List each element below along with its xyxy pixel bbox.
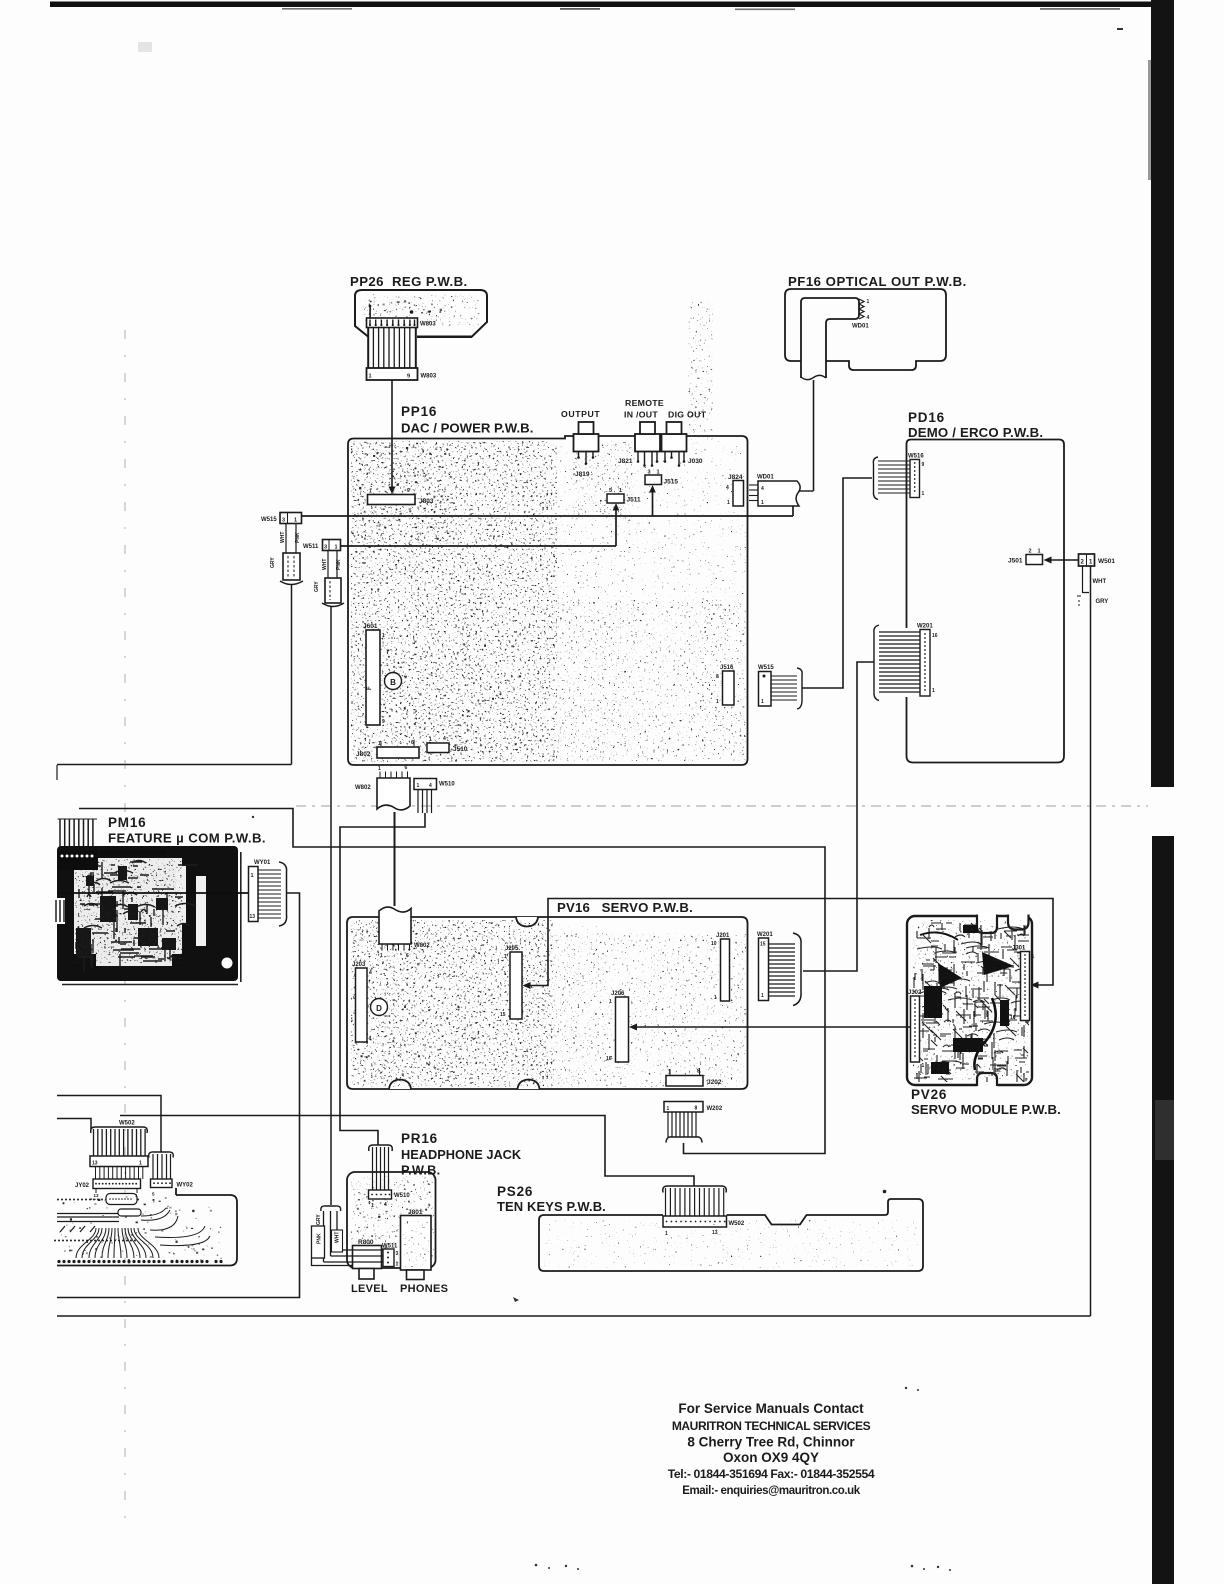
svg-text:J516: J516: [720, 665, 734, 671]
svg-text:1: 1: [619, 488, 622, 494]
WD01 zigzag pins on PF16: [852, 299, 870, 330]
connector W802 lower (PV16 side): [379, 907, 430, 959]
PR16 HEADPHONE JACK label: [401, 1131, 522, 1178]
ribbon W515 (board side, to PD16 W516): [758, 665, 802, 709]
connector J601: [363, 623, 385, 725]
connector J516: [716, 665, 734, 705]
svg-text:PV16 SERVO P.W.B.: PV16 SERVO P.W.B.: [557, 900, 693, 915]
W515 GRY wire down and across to x57: [57, 584, 292, 765]
svg-text:LEVEL: LEVEL: [351, 1283, 388, 1295]
svg-text:DAC / POWER P.W.B.: DAC / POWER P.W.B.: [401, 421, 533, 436]
PM16 FEATURE uCOM P.W.B. label: [108, 815, 266, 846]
svg-text:1: 1: [369, 489, 372, 495]
svg-text:R800: R800: [358, 1239, 374, 1246]
ribbon cable W803: [368, 327, 416, 368]
svg-text:Email:- enquiries@mauritron.co: Email:- enquiries@mauritron.co.uk: [682, 1485, 861, 1497]
PF16 OPTICAL OUT P.W.B. label: [788, 274, 967, 289]
W511 GRY wire long run down to PR16: [330, 606, 332, 1205]
connector W502 (display side) ribbon: [90, 1121, 148, 1180]
connector J501: [1008, 549, 1043, 565]
svg-text:6: 6: [406, 953, 409, 959]
wire PD16 W201 to PV16 W201: [803, 662, 874, 971]
svg-text:16: 16: [606, 1056, 612, 1062]
svg-text:J515: J515: [664, 479, 679, 486]
wire J206 to J302 (PV26) with arrow: [629, 1024, 911, 1031]
svg-text:1: 1: [251, 873, 254, 879]
W510 ribbon into PR16: [369, 1145, 411, 1209]
svg-text:PV26: PV26: [911, 1087, 947, 1102]
svg-text:1: 1: [609, 999, 612, 1005]
wire W515 ribbon to PD16 W516: [802, 478, 872, 688]
wire WY01 to bottom-left rail: [57, 893, 300, 1298]
svg-text:GRY: GRY: [314, 581, 320, 592]
connector W511 (PR16 side): [382, 1244, 399, 1268]
PV26 top/bottom edge notches: [977, 913, 1029, 1088]
svg-text:J821: J821: [618, 458, 633, 465]
svg-text:1: 1: [382, 633, 385, 639]
svg-text:W515: W515: [261, 517, 277, 523]
svg-text:1: 1: [657, 470, 660, 476]
wires crossing R800 into W511: [352, 1250, 383, 1262]
svg-text:J801: J801: [408, 1209, 423, 1216]
svg-text:16: 16: [932, 633, 938, 639]
W501 WHT wire stub: [1077, 566, 1106, 607]
svg-text:W202: W202: [707, 1106, 723, 1112]
connector J510: [427, 736, 468, 753]
svg-text:3: 3: [282, 518, 285, 524]
svg-text:GRY: GRY: [270, 557, 276, 568]
svg-text:J601: J601: [363, 623, 378, 630]
svg-text:J203: J203: [352, 962, 366, 968]
connector W803 upper (board side): [367, 305, 437, 328]
svg-text:1: 1: [369, 1036, 372, 1042]
svg-text:4: 4: [761, 486, 764, 492]
svg-text:OUTPUT: OUTPUT: [561, 409, 600, 419]
J801 PHONES jack: [401, 1209, 432, 1280]
svg-text:PS26: PS26: [497, 1184, 533, 1199]
PD16 DEMO/ERCO P.W.B. label: [908, 410, 1043, 440]
svg-text:PP26 REG P.W.B.: PP26 REG P.W.B.: [350, 274, 468, 289]
connector W511 (cable plug): [303, 540, 341, 551]
svg-text:1: 1: [761, 699, 764, 705]
svg-text:1: 1: [378, 766, 381, 772]
svg-text:1: 1: [294, 518, 297, 524]
svg-text:J206: J206: [611, 991, 625, 997]
connector W515 (cable plug): [261, 513, 302, 524]
svg-text:FEATURE µ COM P.W.B.: FEATURE µ COM P.W.B.: [108, 831, 266, 846]
PF16 inner cutout channel with WD01 pins: [801, 298, 859, 380]
svg-text:MAURITRON TECHNICAL SERVICES: MAURITRON TECHNICAL SERVICES: [672, 1419, 871, 1433]
right border bar upper segment: [1148, 0, 1174, 787]
svg-text:8: 8: [716, 674, 719, 680]
svg-text:J302: J302: [908, 990, 922, 996]
svg-text:W510: W510: [394, 1193, 410, 1199]
svg-text:F: F: [367, 686, 373, 690]
svg-text:1: 1: [932, 688, 935, 694]
connector W502 (PS26 side) with ribbon: [663, 1186, 745, 1237]
svg-text:10: 10: [711, 941, 717, 947]
wire PF16 channel down to WD01 connector: [799, 380, 814, 491]
wire W515 bus to WD01 with tap arrow into J515: [292, 485, 793, 516]
svg-text:D: D: [376, 1004, 382, 1013]
stray scan marks: [138, 28, 1123, 1571]
svg-text:WD01: WD01: [852, 324, 869, 330]
svg-text:9: 9: [407, 374, 410, 380]
PV26 board outline: [907, 916, 1032, 1085]
svg-text:GRY: GRY: [316, 1214, 322, 1225]
PP26 REG board outline: [355, 290, 487, 337]
svg-text:JY02: JY02: [75, 1183, 90, 1189]
svg-text:J510: J510: [453, 746, 468, 753]
svg-text:W802: W802: [355, 785, 371, 791]
svg-text:J205: J205: [505, 946, 519, 952]
svg-text:J202: J202: [707, 1079, 722, 1086]
connector JY02: [75, 1179, 141, 1198]
LEVEL / PHONES labels: [351, 1283, 448, 1295]
svg-text:5: 5: [609, 488, 612, 494]
svg-text:J301: J301: [1012, 946, 1026, 952]
svg-text:PD16: PD16: [908, 410, 945, 425]
connector J205: [500, 946, 522, 1019]
svg-text:1: 1: [761, 993, 764, 999]
Mauritron service contact text block: [668, 1401, 875, 1497]
svg-text:4: 4: [369, 970, 372, 976]
connector W201 (PD16 side) with ribbon: [874, 624, 938, 701]
connector J203: [352, 962, 372, 1042]
svg-text:16: 16: [1010, 1015, 1016, 1021]
svg-text:1: 1: [371, 1203, 374, 1209]
DIG OUT jack J030: [662, 410, 707, 467]
svg-text:GRY: GRY: [1096, 599, 1109, 605]
connector W510 upper with 4 wires: [414, 779, 455, 814]
svg-text:PNK: PNK: [317, 1233, 323, 1244]
svg-text:WHT: WHT: [335, 1232, 341, 1243]
circled D marker: [371, 999, 388, 1016]
svg-text:13: 13: [92, 1161, 98, 1167]
svg-text:IN /OUT: IN /OUT: [624, 410, 658, 420]
wire rails into display board W502: [57, 1096, 161, 1153]
svg-text:1: 1: [922, 1063, 925, 1069]
svg-text:W515: W515: [758, 665, 774, 671]
svg-text:1: 1: [429, 737, 432, 743]
PR16 speckle: [351, 1176, 434, 1266]
bottom horizontal rail (W501 GRY return): [57, 1315, 1091, 1317]
svg-text:13: 13: [94, 1193, 100, 1198]
svg-text:1: 1: [922, 491, 925, 497]
svg-text:W511: W511: [382, 1244, 398, 1250]
wire PM16 to W202 long route: [79, 809, 825, 1154]
connector J511: [607, 488, 641, 504]
connector W201 (PV16 side) with ribbon: [757, 932, 801, 1006]
svg-text:Oxon OX9 4QY: Oxon OX9 4QY: [723, 1450, 819, 1465]
svg-text:1: 1: [714, 995, 717, 1001]
REMOTE IN/OUT jack J821: [618, 398, 664, 467]
svg-text:PP16: PP16: [401, 404, 437, 419]
svg-text:J802: J802: [356, 751, 371, 758]
W515 cable wires WHT/PNK: [280, 524, 301, 554]
comb ribbon into PM16 top left: [57, 765, 97, 847]
connector J201: [711, 933, 730, 1001]
svg-text:4: 4: [443, 736, 446, 742]
svg-text:15: 15: [500, 1012, 506, 1018]
connector J301: [1010, 946, 1035, 1022]
svg-text:4: 4: [384, 1202, 387, 1208]
PR16 board outline: [347, 1172, 436, 1268]
svg-text:For Service Manuals Contact: For Service Manuals Contact: [678, 1401, 864, 1416]
connector W802 upper (PP16 side): [355, 765, 410, 810]
W511 cable body: [314, 578, 344, 607]
svg-text:TEN KEYS P.W.B.: TEN KEYS P.W.B.: [497, 1199, 606, 1214]
PP16 board outline: [348, 436, 748, 765]
svg-text:Tel:- 01844-351694 Fax:- 01844: Tel:- 01844-351694 Fax:- 01844-352554: [668, 1467, 875, 1481]
svg-text:1: 1: [396, 1262, 399, 1268]
svg-text:W803: W803: [420, 322, 436, 328]
PV26 SERVO MODULE label: [911, 1087, 1061, 1117]
svg-text:1: 1: [1032, 954, 1035, 960]
svg-text:W510: W510: [439, 782, 455, 788]
svg-text:13: 13: [250, 914, 256, 920]
svg-text:15: 15: [760, 942, 766, 948]
svg-text:3: 3: [324, 545, 327, 551]
svg-text:J819: J819: [575, 471, 590, 478]
PV16 SERVO P.W.B. label: [557, 900, 693, 915]
PS26 speckle: [543, 1190, 918, 1268]
connector WD01 (cable side): [749, 475, 800, 507]
svg-text:WY01: WY01: [254, 860, 271, 866]
svg-text:1: 1: [1038, 549, 1041, 555]
svg-text:J511: J511: [627, 497, 641, 504]
svg-text:J201: J201: [716, 933, 730, 939]
PS26 TEN KEYS label: [497, 1184, 606, 1214]
svg-text:3: 3: [396, 1251, 399, 1257]
PP26 board speckle: [364, 294, 480, 326]
svg-text:2: 2: [1029, 549, 1032, 555]
svg-text:W802: W802: [414, 943, 430, 949]
connector W803 lower (cable side): [367, 368, 437, 380]
PD16 board outline: [907, 440, 1065, 763]
svg-text:9: 9: [922, 462, 925, 468]
top border bar: [50, 2, 1174, 11]
wire W510 run to PR16: [340, 813, 425, 1145]
PP16 DAC/POWER P.W.B. label: [401, 404, 533, 436]
svg-text:SERVO MODULE P.W.B.: SERVO MODULE P.W.B.: [911, 1102, 1061, 1117]
svg-text:4: 4: [429, 783, 432, 789]
svg-text:1: 1: [504, 954, 507, 960]
PV16 board outline with edge notches: [347, 917, 748, 1089]
svg-text:DEMO / ERCO P.W.B.: DEMO / ERCO P.W.B.: [908, 425, 1043, 440]
wire W803 to J803 with down arrow: [389, 380, 396, 494]
PP16 board speckle texture: [351, 300, 746, 762]
svg-text:WY02: WY02: [177, 1183, 194, 1189]
svg-text:WHT: WHT: [1093, 579, 1107, 585]
faint horizontal fold line: [296, 805, 1148, 807]
svg-text:1: 1: [369, 374, 372, 380]
display board outline (bottom left): [57, 1188, 237, 1266]
svg-text:W201: W201: [757, 932, 773, 938]
svg-text:REMOTE: REMOTE: [625, 398, 664, 408]
W501 GRY wire long run down: [1091, 566, 1109, 1316]
svg-text:J501: J501: [1008, 558, 1023, 565]
svg-text:1: 1: [417, 783, 420, 789]
faint vertical fold dash-dot line: [124, 330, 126, 1525]
svg-text:1: 1: [380, 953, 383, 959]
svg-text:W511: W511: [303, 544, 319, 550]
connector W516 (PD16 side) with ribbon: [873, 454, 924, 500]
W515 cable body: [270, 553, 303, 585]
PNK / WHT labels boxed: [312, 1226, 381, 1266]
display board traces: [54, 1194, 223, 1264]
svg-text:WHT: WHT: [322, 559, 328, 570]
svg-text:PR16: PR16: [401, 1131, 438, 1146]
wire W501 to J501 with arrow: [1044, 557, 1079, 564]
svg-text:1: 1: [716, 699, 719, 705]
svg-text:PF16 OPTICAL OUT P.W.B.: PF16 OPTICAL OUT P.W.B.: [788, 274, 967, 289]
svg-text:PM16: PM16: [108, 815, 146, 830]
svg-text:1: 1: [335, 545, 338, 551]
svg-text:4: 4: [726, 485, 729, 491]
connector J202: [666, 1068, 722, 1086]
connector WY02 with riser: [149, 1152, 194, 1197]
connector J302: [908, 990, 925, 1069]
svg-text:WHT: WHT: [280, 532, 286, 543]
svg-text:8: 8: [695, 1106, 698, 1112]
connector J802: [356, 740, 419, 758]
connector W501: [1079, 554, 1116, 566]
svg-text:W516: W516: [908, 454, 924, 460]
wire long rail to PS26 W502: [120, 1116, 694, 1187]
svg-text:1: 1: [139, 1161, 142, 1167]
svg-text:9: 9: [407, 488, 410, 494]
W511 3-wire fan at PR16: [316, 1206, 383, 1262]
svg-text:DIG OUT: DIG OUT: [668, 410, 707, 420]
svg-text:J824: J824: [728, 474, 743, 481]
svg-text:1: 1: [667, 1106, 670, 1112]
svg-text:W502: W502: [119, 1121, 135, 1127]
svg-text:3: 3: [648, 470, 651, 476]
svg-text:J803: J803: [419, 498, 434, 505]
svg-text:1: 1: [727, 500, 730, 506]
W511 cable wires WHT/PNK: [322, 551, 342, 579]
svg-text:4: 4: [867, 315, 870, 321]
svg-text:W501: W501: [1098, 558, 1115, 565]
wire W802 vertical joint: [394, 812, 396, 906]
PM16 board (dense black PCB art): [53, 846, 242, 985]
PS26 board outline with notch and tab: [539, 1199, 923, 1271]
svg-text:J030: J030: [688, 458, 703, 465]
wire J205 to J301 (PV26) with arrows: [523, 899, 1054, 990]
svg-text:1: 1: [867, 299, 870, 305]
svg-text:6: 6: [405, 765, 408, 771]
R800 LEVEL control: [353, 1239, 382, 1279]
connector W202 with ribbon: [664, 1102, 723, 1143]
svg-text:HEADPHONE JACK: HEADPHONE JACK: [401, 1147, 522, 1162]
wire across PM16 to WY01: [58, 892, 249, 894]
svg-text:PHONES: PHONES: [400, 1283, 448, 1295]
svg-text:1: 1: [761, 500, 764, 506]
connector J206: [606, 991, 629, 1062]
svg-text:9: 9: [382, 719, 385, 725]
svg-text:8 Cherry Tree Rd, Chinnor: 8 Cherry Tree Rd, Chinnor: [687, 1435, 855, 1450]
svg-text:B: B: [390, 678, 396, 687]
connector J803: [368, 488, 434, 505]
right border bar lower segment: [1152, 836, 1174, 1584]
svg-text:W803: W803: [421, 374, 437, 380]
OUTPUT jack J819: [561, 409, 600, 478]
connector J515: [645, 470, 678, 486]
svg-text:WD01: WD01: [757, 475, 774, 481]
PP26 REG P.W.B. label: [350, 274, 468, 289]
circled B marker: [385, 673, 402, 690]
wire W511 bus with arrow into J511: [331, 503, 619, 546]
svg-text:W201: W201: [917, 624, 933, 630]
connector WY01 with ribbon: [249, 860, 287, 926]
connector J824: [726, 474, 744, 506]
PV16 board speckle texture: [351, 920, 746, 1087]
PF16 board outline with tab: [785, 289, 946, 370]
